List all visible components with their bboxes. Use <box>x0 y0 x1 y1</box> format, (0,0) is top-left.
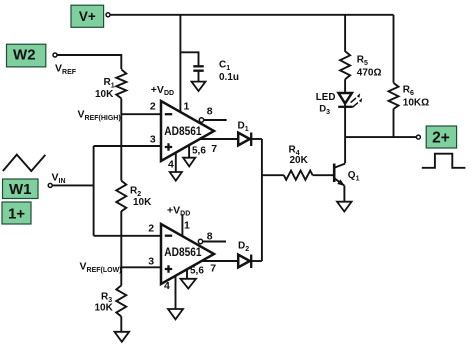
wire rail to R5 <box>344 15 346 52</box>
node W2 box <box>7 44 46 67</box>
svg-text:V+: V+ <box>79 9 96 24</box>
svg-text:8: 8 <box>207 105 213 117</box>
wire VIN to U2 pin2 <box>94 235 162 237</box>
svg-text:AD8561: AD8561 <box>164 124 201 138</box>
node W1 box <box>3 179 39 199</box>
wire VIN to U1 pin3 <box>94 145 162 147</box>
svg-text:5,6: 5,6 <box>190 266 204 277</box>
wire C1 tap <box>180 52 198 66</box>
svg-text:W2: W2 <box>13 46 36 63</box>
wire R6 down to output node <box>393 109 395 137</box>
svg-text:7: 7 <box>211 143 217 155</box>
svg-text:4: 4 <box>164 280 170 292</box>
U2 pin8 bubble and stub <box>198 239 226 243</box>
capacitor C1 <box>193 66 203 81</box>
svg-text:C1: C1 <box>219 60 230 73</box>
U1 pin4 ground <box>170 153 182 181</box>
svg-text:20K: 20K <box>290 155 309 166</box>
wire VREF(HIGH) to U1 pin2 <box>121 113 161 115</box>
wire U2 output to D2 <box>202 260 238 262</box>
resistor R3 <box>116 285 126 316</box>
terminal circle 2+ <box>416 135 420 139</box>
wire U1 VDD drop <box>179 15 181 113</box>
ground below C1 <box>192 82 206 91</box>
svg-text:2: 2 <box>148 222 154 234</box>
waveform triangle glyph <box>3 155 45 171</box>
node 2+ box <box>426 126 456 148</box>
label R1 <box>95 77 115 100</box>
resistor R5 <box>340 51 350 79</box>
svg-text:LED: LED <box>316 92 336 103</box>
wire VREF(LOW) to U2 pin3 <box>121 266 161 268</box>
U2 pin56 ground <box>181 269 197 288</box>
diode D2 <box>238 255 251 269</box>
svg-text:+VDD: +VDD <box>167 204 190 217</box>
svg-text:3: 3 <box>150 133 156 145</box>
svg-text:4: 4 <box>168 159 174 171</box>
label R2 <box>130 186 152 208</box>
resistor R6 <box>389 83 399 109</box>
op-amp U2 AD8561 <box>161 224 214 284</box>
terminal circle VIN <box>48 183 52 187</box>
svg-text:R1: R1 <box>104 77 115 90</box>
svg-text:AD8561: AD8561 <box>164 245 201 259</box>
U2 pin4 ground <box>168 276 183 320</box>
svg-text:D2: D2 <box>238 240 249 253</box>
svg-text:0.1u: 0.1u <box>219 72 239 83</box>
label R4 <box>289 144 309 166</box>
ground below Q1 <box>337 202 352 212</box>
wire top V+ rail <box>110 14 393 16</box>
svg-text:10K: 10K <box>95 302 114 313</box>
ground below R3 <box>115 332 130 342</box>
resistor R1 <box>116 69 126 98</box>
svg-text:R5: R5 <box>357 54 368 67</box>
svg-text:1+: 1+ <box>8 206 25 223</box>
wire rail to R6 <box>393 15 395 83</box>
svg-text:2+: 2+ <box>432 130 450 147</box>
label R6 <box>403 85 429 109</box>
svg-text:Q1: Q1 <box>348 170 360 183</box>
wire LED to output node <box>344 103 346 137</box>
label R3 <box>95 292 114 314</box>
resistor R4 <box>284 171 313 180</box>
wire VIN to bus <box>53 184 94 186</box>
svg-text:+VDD: +VDD <box>151 84 174 97</box>
svg-text:VREF: VREF <box>55 62 77 76</box>
U1 pin8 bubble and stub <box>199 118 226 122</box>
wire VIN bus vertical <box>93 146 95 236</box>
svg-text:W1: W1 <box>9 181 32 198</box>
wire R3 to ground <box>120 317 122 332</box>
svg-text:10KΩ: 10KΩ <box>403 98 429 109</box>
svg-text:2: 2 <box>150 101 156 113</box>
op-amp U1 AD8561 <box>161 101 214 161</box>
svg-text:R6: R6 <box>403 85 414 98</box>
node V+ supply box <box>71 5 104 27</box>
label R5 <box>357 54 382 78</box>
U1 pin56 ground <box>183 145 195 166</box>
wire Q1 collector up <box>344 137 346 163</box>
svg-text:3: 3 <box>148 255 154 267</box>
svg-text:VREF(HIGH): VREF(HIGH) <box>78 109 121 123</box>
svg-text:10K: 10K <box>133 197 152 208</box>
U2 VDD stub <box>181 214 183 236</box>
wire R column R2 to R3 <box>120 211 122 286</box>
wire R4 to Q1 base <box>313 174 335 176</box>
wire D1 to bus <box>251 138 262 140</box>
svg-text:D1: D1 <box>238 120 249 133</box>
wire W2 to R1 <box>57 55 121 69</box>
transistor Q1 <box>334 164 345 186</box>
svg-text:7: 7 <box>210 263 216 275</box>
label C1 value <box>219 60 239 83</box>
wire U1 output to D1 <box>200 138 238 140</box>
terminal circle V+ <box>106 13 110 17</box>
svg-text:VIN: VIN <box>52 172 66 186</box>
LED D3 <box>338 93 361 107</box>
wire diode bus vertical <box>261 139 263 261</box>
svg-text:1: 1 <box>184 220 190 232</box>
svg-text:5,6: 5,6 <box>192 145 206 156</box>
svg-text:10K: 10K <box>95 89 114 100</box>
terminal circle W2 <box>53 53 57 57</box>
wire output node horizontal <box>345 136 416 138</box>
wire R column R1 to R2 <box>120 98 122 180</box>
svg-text:470Ω: 470Ω <box>357 68 382 79</box>
wire Q1 emitter down <box>343 186 345 202</box>
waveform square glyph <box>422 154 466 168</box>
wire D2 to bus <box>251 260 262 262</box>
node 1+ box <box>2 202 31 224</box>
svg-text:8: 8 <box>207 231 213 243</box>
resistor R2 <box>116 181 126 212</box>
diode D1 <box>238 133 251 147</box>
svg-text:VREF(LOW): VREF(LOW) <box>80 261 122 275</box>
wire bus to R4 <box>262 174 284 176</box>
svg-text:1: 1 <box>184 100 190 112</box>
wire R5 to LED <box>344 79 346 93</box>
svg-text:D3: D3 <box>319 103 330 116</box>
